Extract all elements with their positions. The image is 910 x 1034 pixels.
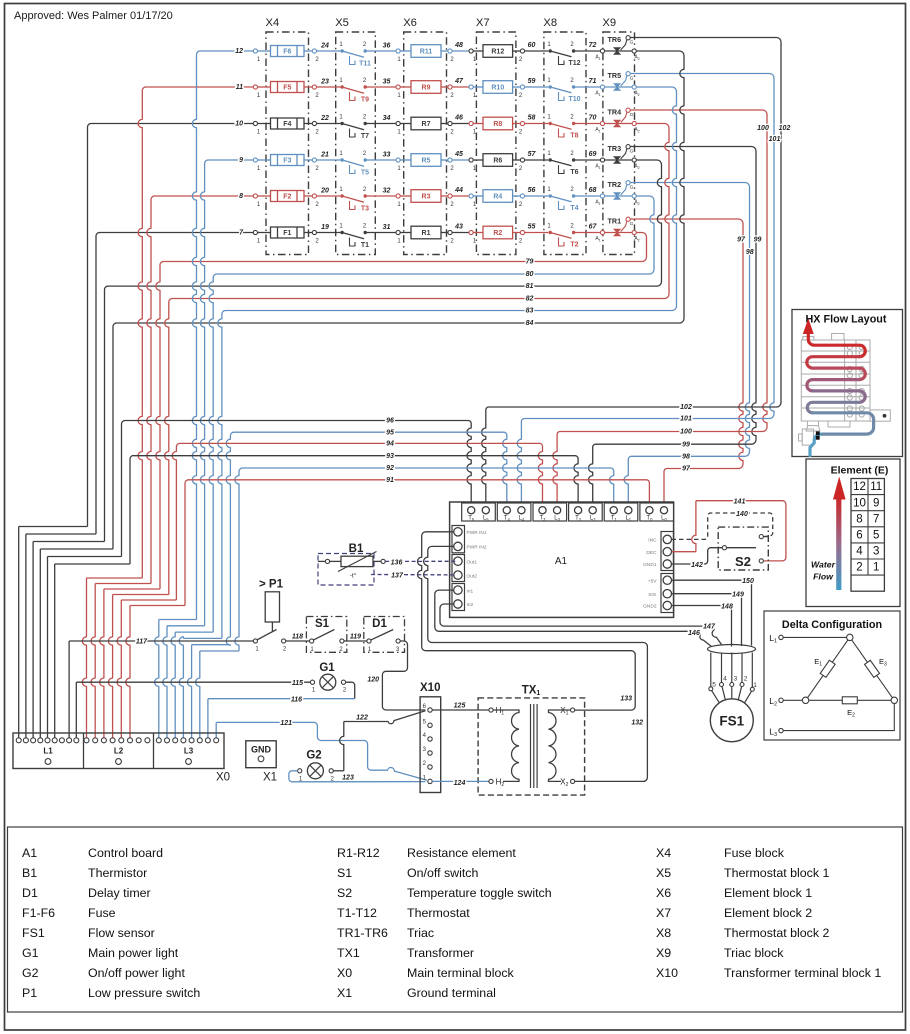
blue bundle vertical 3 bbox=[209, 274, 217, 632]
node R7 pin2 bbox=[448, 121, 452, 125]
svg-text:56: 56 bbox=[528, 187, 536, 194]
svg-text:119: 119 bbox=[350, 634, 361, 641]
HX pump squares bbox=[816, 431, 820, 435]
svg-text:80: 80 bbox=[526, 271, 534, 278]
svg-text:10: 10 bbox=[235, 121, 243, 128]
A1 left terminal block PWR bbox=[452, 526, 465, 553]
svg-text:10: 10 bbox=[853, 497, 866, 509]
red staircase step 6 bbox=[130, 605, 185, 607]
svg-text:Thermostat block 1: Thermostat block 1 bbox=[724, 866, 829, 880]
svg-text:R7: R7 bbox=[422, 121, 431, 128]
svg-text:117: 117 bbox=[136, 638, 148, 645]
thermostat T7 bbox=[340, 122, 343, 125]
red staircase step 2 bbox=[95, 583, 151, 585]
svg-text:68: 68 bbox=[589, 187, 597, 194]
svg-text:Thermostat: Thermostat bbox=[407, 906, 470, 920]
block X6 dash-dot box bbox=[404, 32, 447, 255]
node R3 pin2 bbox=[448, 194, 452, 198]
svg-text:24: 24 bbox=[320, 43, 329, 50]
svg-text:115: 115 bbox=[292, 680, 303, 687]
node F5 pin1 bbox=[253, 85, 257, 89]
red staircase step 5 bbox=[121, 599, 176, 601]
svg-text:31: 31 bbox=[383, 224, 391, 231]
svg-text:X8: X8 bbox=[543, 17, 557, 29]
X0 section L2 bbox=[84, 738, 89, 743]
svg-text:L3: L3 bbox=[184, 747, 194, 756]
svg-text:R10: R10 bbox=[491, 85, 504, 92]
thermostat T6 bbox=[549, 158, 552, 161]
wire 20 to thermostat T3 bbox=[317, 195, 341, 197]
TX1 core bbox=[530, 704, 532, 788]
svg-text:L2: L2 bbox=[590, 515, 596, 522]
main terminal block X0 bbox=[13, 733, 224, 769]
element R6 bbox=[473, 159, 483, 161]
svg-text:Transformer terminal block 1: Transformer terminal block 1 bbox=[724, 966, 881, 980]
svg-text:120: 120 bbox=[367, 677, 379, 684]
on/off switch S1 bbox=[306, 617, 346, 653]
wire 124 X10 pin1 to TX1 H2 bbox=[432, 780, 489, 782]
wire 91 to A1 terminal T0 bbox=[188, 480, 649, 507]
node R11 pin1 bbox=[396, 49, 400, 53]
svg-text:TR4: TR4 bbox=[608, 107, 622, 116]
svg-text:X5: X5 bbox=[656, 866, 671, 880]
wire 101 horizontal to A1 terminal L4 bbox=[517, 419, 769, 507]
red staircase step 1 bbox=[87, 577, 143, 579]
A1 left terminal block In bbox=[452, 584, 465, 611]
HX heat exchanger body bbox=[801, 340, 870, 421]
wire 84 from TR6 A2 bbox=[116, 51, 684, 323]
svg-text:On/off power light: On/off power light bbox=[88, 966, 185, 980]
svg-text:G: G bbox=[630, 149, 634, 155]
TX1 X2 terminal bbox=[571, 779, 575, 783]
svg-text:46: 46 bbox=[454, 115, 463, 122]
wire 72 to triac TR6 bbox=[574, 50, 601, 52]
element numbering table bbox=[851, 479, 884, 592]
svg-text:11: 11 bbox=[870, 481, 882, 493]
HX outflow arrow bbox=[803, 319, 814, 335]
A1 right terminal block +5V/SIG/GND2 bbox=[661, 574, 674, 613]
svg-text:Flow sensor: Flow sensor bbox=[88, 926, 155, 940]
wire 117 from X0 L1 to P1 bbox=[68, 641, 70, 738]
red bundle lower vertical 3 bbox=[100, 589, 104, 738]
fuse F1 bbox=[258, 232, 271, 234]
svg-text:23: 23 bbox=[320, 79, 329, 86]
fuse F5 bbox=[258, 86, 271, 88]
svg-text:2: 2 bbox=[856, 562, 862, 574]
svg-text:-t°: -t° bbox=[350, 572, 357, 580]
thermostat T12 bbox=[549, 49, 552, 52]
svg-text:B1: B1 bbox=[349, 543, 364, 555]
red bundle vertical 3 bbox=[156, 262, 164, 590]
A1 terminal pair T1/L1 bbox=[604, 503, 638, 521]
blue bundle lower vertical 6 bbox=[196, 651, 200, 738]
blue bundle lower vertical 2 bbox=[163, 626, 167, 738]
X10 pin 2 bbox=[428, 765, 432, 769]
TX1 secondary winding bbox=[549, 710, 571, 781]
svg-text:D1: D1 bbox=[22, 886, 38, 900]
node F3 pin2 bbox=[312, 158, 316, 162]
svg-text:Element block 1: Element block 1 bbox=[724, 886, 812, 900]
wire 10 from bundle to fuse F4 bbox=[91, 123, 256, 125]
wire 140 INC to S2 dashed bbox=[672, 513, 773, 539]
red bundle vertical 6 bbox=[185, 480, 189, 606]
svg-text:100: 100 bbox=[680, 429, 692, 436]
svg-text:93: 93 bbox=[386, 453, 394, 460]
svg-text:43: 43 bbox=[454, 224, 463, 231]
thermostat T9 bbox=[340, 85, 343, 88]
node F6 pin1 bbox=[253, 49, 257, 53]
node R7 pin1 bbox=[396, 121, 400, 125]
TR5 gate node bbox=[626, 72, 630, 76]
svg-text:L0: L0 bbox=[661, 515, 667, 522]
wire 46 to element R8 bbox=[452, 123, 469, 125]
svg-text:T5: T5 bbox=[468, 515, 475, 522]
thermostat T4 bbox=[549, 194, 552, 197]
Delta Configuration box bbox=[764, 611, 900, 740]
delta winding E2 bbox=[809, 699, 892, 701]
node F4 pin1 bbox=[253, 121, 257, 125]
wire 142 GND1 to S2 common bbox=[672, 548, 723, 564]
X10 pin 5 bbox=[428, 723, 432, 727]
svg-text:R8: R8 bbox=[493, 121, 502, 128]
blue staircase step 1 bbox=[159, 619, 197, 621]
wire 146 In1 to FS1 pin 5 bbox=[435, 590, 712, 646]
red bundle lower vertical 5 bbox=[117, 600, 121, 738]
black bundle vertical 5 bbox=[122, 421, 126, 557]
svg-text:83: 83 bbox=[526, 308, 534, 315]
triac TR1 bbox=[600, 230, 604, 234]
block X8 dash-dot box bbox=[544, 32, 586, 255]
svg-text:X8: X8 bbox=[656, 926, 671, 940]
wire 80 from TR2 A2 bbox=[216, 196, 654, 274]
svg-text:45: 45 bbox=[454, 151, 463, 158]
wire 79 from TR1 A2 bbox=[163, 233, 646, 262]
wire 97 horizontal to A1 terminal L0 bbox=[664, 469, 739, 507]
wire 98 horizontal to A1 terminal L1 bbox=[624, 456, 745, 506]
svg-text:On/off switch: On/off switch bbox=[407, 866, 479, 880]
blue staircase step 3 bbox=[175, 631, 213, 633]
svg-text:T2: T2 bbox=[575, 515, 582, 522]
node R3 pin1 bbox=[396, 194, 400, 198]
red bundle vertical 4 bbox=[165, 299, 173, 595]
red bundle lower vertical 1 bbox=[82, 578, 86, 738]
svg-text:G1: G1 bbox=[22, 946, 39, 960]
svg-text:X10: X10 bbox=[656, 966, 678, 980]
water flow arrow bbox=[836, 496, 841, 590]
svg-text:F2: F2 bbox=[283, 194, 291, 201]
svg-text:L2: L2 bbox=[114, 747, 124, 756]
A1 right terminal block INC/DEC/GND1 bbox=[661, 532, 674, 571]
node F2 pin2 bbox=[312, 194, 316, 198]
wire 116 G1 return to X0 L3 bbox=[346, 682, 355, 699]
svg-text:1: 1 bbox=[873, 562, 879, 574]
svg-text:X6: X6 bbox=[403, 17, 417, 29]
HX element circles bbox=[847, 344, 852, 349]
wire 32 to element R3 bbox=[365, 195, 396, 197]
wire 150 +5V to FS1 pin 1 bbox=[672, 580, 752, 645]
svg-text:TR1: TR1 bbox=[608, 216, 622, 225]
Element (E) box bbox=[806, 459, 900, 607]
A1 terminal pair T0/L0 bbox=[640, 503, 674, 521]
wire 120 D1 to X10 pin 6 bbox=[382, 641, 425, 710]
svg-text:81: 81 bbox=[526, 283, 534, 290]
svg-text:T11: T11 bbox=[359, 61, 371, 68]
wire 36 to element R11 bbox=[365, 50, 396, 52]
svg-text:147: 147 bbox=[703, 624, 716, 631]
svg-text:X9: X9 bbox=[656, 946, 671, 960]
wire 115 from X0 L1 to G1 bbox=[75, 682, 77, 738]
svg-text:T3: T3 bbox=[539, 515, 546, 522]
svg-text:148: 148 bbox=[721, 603, 733, 610]
svg-text:TR6: TR6 bbox=[608, 35, 622, 44]
fuse F2 bbox=[258, 195, 271, 197]
A1 terminal pair T5/L5 bbox=[462, 503, 496, 521]
svg-text:67: 67 bbox=[589, 224, 598, 231]
svg-text:133: 133 bbox=[620, 696, 632, 703]
wire 7 from bundle to fuse F1 bbox=[99, 232, 255, 234]
triac TR5 bbox=[600, 85, 604, 89]
svg-text:D1: D1 bbox=[372, 618, 387, 630]
svg-text:Thermistor: Thermistor bbox=[88, 866, 147, 880]
node F3 pin1 bbox=[253, 158, 257, 162]
svg-text:T2: T2 bbox=[570, 242, 578, 249]
svg-text:99: 99 bbox=[682, 441, 690, 448]
svg-text:T12: T12 bbox=[568, 60, 580, 67]
element R3 bbox=[400, 195, 411, 197]
transformer terminal block X10 bbox=[420, 697, 441, 793]
svg-text:R11: R11 bbox=[420, 49, 433, 56]
svg-text:P1: P1 bbox=[22, 986, 37, 1000]
svg-text:X10: X10 bbox=[420, 682, 440, 694]
wire 23 to thermostat T9 bbox=[317, 86, 341, 88]
svg-text:12: 12 bbox=[853, 481, 866, 493]
svg-text:Transformer: Transformer bbox=[407, 946, 474, 960]
wire 123 G2 to X10 pin 1 bbox=[289, 771, 426, 782]
element R2 bbox=[473, 232, 483, 234]
svg-text:X0: X0 bbox=[216, 772, 230, 784]
node R6 pin1 bbox=[469, 158, 473, 162]
blue staircase step 2 bbox=[167, 625, 205, 627]
svg-text:In2: In2 bbox=[467, 602, 474, 608]
svg-text:F4: F4 bbox=[283, 121, 291, 128]
FS1 pin 1 bbox=[751, 653, 753, 688]
delta left node bbox=[802, 697, 808, 703]
svg-text:X0: X0 bbox=[337, 966, 352, 980]
svg-text:96: 96 bbox=[386, 418, 394, 425]
wire 59 to thermostat T10 bbox=[525, 86, 549, 88]
svg-text:82: 82 bbox=[526, 296, 534, 303]
thermostat T10 bbox=[549, 85, 552, 88]
black bundle lower vertical 6 bbox=[54, 564, 56, 738]
node TR3 A2 bbox=[632, 158, 636, 162]
blue bundle vertical 1 bbox=[192, 51, 200, 620]
X10 pin 4 bbox=[428, 737, 432, 741]
svg-text:8: 8 bbox=[856, 513, 862, 525]
thermostat T3 bbox=[340, 194, 343, 197]
svg-text:G2: G2 bbox=[22, 966, 39, 980]
svg-text:TR1-TR6: TR1-TR6 bbox=[337, 926, 388, 940]
svg-text:140: 140 bbox=[736, 511, 748, 518]
blue bundle lower vertical 5 bbox=[187, 645, 191, 738]
thermostat T2 bbox=[549, 231, 552, 234]
blue bundle lower vertical 4 bbox=[179, 637, 183, 738]
svg-text:L1: L1 bbox=[625, 515, 631, 522]
svg-text:R1-R12: R1-R12 bbox=[337, 846, 380, 860]
wire 92 to A1 terminal T1 bbox=[242, 468, 614, 507]
svg-text:8: 8 bbox=[239, 193, 243, 200]
blue bundle lower vertical 1 bbox=[155, 620, 159, 739]
wire 95 to A1 terminal T4 bbox=[234, 432, 507, 506]
svg-text:Fuse block: Fuse block bbox=[724, 846, 785, 860]
red staircase step 3 bbox=[104, 588, 160, 590]
svg-text:R2: R2 bbox=[493, 230, 502, 237]
blue bundle vertical 2 bbox=[200, 160, 208, 626]
element R12 bbox=[473, 50, 483, 52]
svg-text:X7: X7 bbox=[476, 17, 490, 29]
svg-text:+5V: +5V bbox=[648, 578, 657, 584]
svg-text:R12: R12 bbox=[491, 49, 504, 56]
TX1 H2 terminal bbox=[489, 779, 493, 783]
A1 terminal pair T2/L2 bbox=[569, 503, 603, 521]
svg-text:X6: X6 bbox=[656, 886, 671, 900]
svg-text:T4: T4 bbox=[570, 205, 578, 212]
svg-text:20: 20 bbox=[320, 188, 329, 195]
TX1 X1 terminal bbox=[571, 708, 575, 712]
svg-text:141: 141 bbox=[734, 498, 746, 505]
wire 9 from bundle to fuse F3 bbox=[208, 159, 256, 161]
wire 141 DEC to S2 bbox=[672, 551, 696, 553]
TR6 gate node bbox=[626, 36, 630, 40]
svg-text:F3: F3 bbox=[283, 158, 291, 165]
svg-text:Triac block: Triac block bbox=[724, 946, 784, 960]
svg-text:55: 55 bbox=[528, 224, 536, 231]
node R2 pin1 bbox=[469, 230, 473, 234]
node R10 pin2 bbox=[520, 85, 524, 89]
legend box bbox=[8, 827, 903, 1012]
svg-text:X9: X9 bbox=[602, 17, 616, 29]
FS1 pin 5 bbox=[710, 653, 712, 687]
A1 left terminal block Out bbox=[452, 555, 465, 582]
wire 69 to triac TR3 bbox=[574, 159, 601, 161]
svg-text:72: 72 bbox=[589, 42, 597, 49]
svg-text:100: 100 bbox=[757, 125, 769, 132]
wire 81 from TR3 A2 bbox=[108, 160, 662, 286]
svg-text:G: G bbox=[630, 221, 634, 227]
svg-text:G: G bbox=[630, 76, 634, 82]
wire 100 gate of TR4 run to A1 bbox=[630, 110, 767, 432]
wire 55 to thermostat T2 bbox=[525, 232, 549, 234]
wire 94 to A1 terminal T3 bbox=[180, 443, 543, 506]
triac TR3 bbox=[600, 158, 604, 162]
node R5 pin1 bbox=[396, 158, 400, 162]
wire 149 SIG to FS1 pin 2 bbox=[672, 594, 742, 646]
svg-text:PWR IN1: PWR IN1 bbox=[467, 530, 487, 536]
node R1 pin1 bbox=[396, 230, 400, 234]
svg-text:Control board: Control board bbox=[88, 846, 163, 860]
svg-text:32: 32 bbox=[383, 188, 391, 195]
element R1 bbox=[400, 232, 411, 234]
wire 34 to element R7 bbox=[365, 123, 396, 125]
X10 pin 6 bbox=[428, 708, 432, 712]
svg-text:102: 102 bbox=[779, 125, 791, 132]
svg-text:91: 91 bbox=[386, 477, 394, 484]
svg-text:> P1: > P1 bbox=[259, 579, 284, 591]
blue staircase step 5 bbox=[192, 644, 231, 646]
svg-text:L5: L5 bbox=[483, 515, 489, 522]
svg-text:94: 94 bbox=[386, 441, 394, 448]
svg-text:9: 9 bbox=[873, 497, 879, 509]
svg-text:11: 11 bbox=[236, 84, 243, 91]
node R8 pin1 bbox=[469, 121, 473, 125]
thermostat T8 bbox=[549, 122, 552, 125]
wire 132 PWR IN2 to TX1 X2 bbox=[424, 546, 648, 781]
black bundle vertical 1 bbox=[88, 124, 92, 527]
svg-text:1: 1 bbox=[753, 682, 757, 689]
svg-text:Out2: Out2 bbox=[467, 573, 478, 579]
fuse F3 bbox=[258, 159, 271, 161]
thermistor B1 bbox=[318, 554, 374, 586]
black staircase step 1 bbox=[19, 526, 88, 528]
svg-text:Main terminal block: Main terminal block bbox=[407, 966, 515, 980]
svg-text:Element (E): Element (E) bbox=[831, 465, 889, 477]
svg-text:X1: X1 bbox=[263, 772, 277, 784]
wire 101 gate of TR5 run to A1 bbox=[630, 74, 774, 419]
wire 22 to thermostat T7 bbox=[317, 123, 341, 125]
wire 99 horizontal to A1 terminal L2 bbox=[589, 444, 752, 506]
black bundle vertical 2 bbox=[96, 233, 100, 535]
wire 8 from bundle to fuse F2 bbox=[154, 195, 255, 197]
svg-text:X1: X1 bbox=[337, 986, 352, 1000]
wire 48 to element R12 bbox=[452, 50, 469, 52]
wire 102 horizontal to A1 terminal L5 bbox=[482, 407, 777, 507]
blue bundle vertical 5 bbox=[226, 432, 234, 645]
svg-text:F6: F6 bbox=[283, 49, 291, 56]
black bundle lower vertical 5 bbox=[47, 557, 49, 739]
black bundle vertical 6 bbox=[130, 456, 134, 565]
block X9 dash-dot box bbox=[603, 32, 635, 255]
svg-text:34: 34 bbox=[383, 115, 391, 122]
black staircase step 6 bbox=[55, 563, 130, 565]
black bundle lower vertical 2 bbox=[25, 534, 27, 738]
blue bundle vertical 4 bbox=[218, 311, 226, 639]
wire 136 B1 to Out1 dashed bbox=[385, 560, 456, 562]
svg-text:6: 6 bbox=[856, 530, 862, 542]
svg-text:X5: X5 bbox=[335, 17, 349, 29]
wire 70 to triac TR4 bbox=[574, 123, 601, 125]
wire 99 gate of TR3 run to A1 bbox=[630, 147, 756, 445]
delay timer D1 bbox=[364, 617, 405, 653]
svg-text:132: 132 bbox=[631, 720, 643, 727]
svg-text:137: 137 bbox=[391, 573, 404, 580]
svg-text:124: 124 bbox=[454, 780, 466, 787]
red bundle lower vertical 6 bbox=[126, 606, 130, 739]
TR3 gate node bbox=[626, 145, 630, 149]
svg-text:X4: X4 bbox=[656, 846, 671, 860]
svg-text:T9: T9 bbox=[361, 97, 369, 104]
wire 133 PWR IN1 to TX1 X1 bbox=[418, 532, 636, 710]
svg-text:79: 79 bbox=[526, 259, 534, 266]
HX serpentine flow tube bbox=[808, 333, 865, 357]
svg-text:T1-T12: T1-T12 bbox=[337, 906, 377, 920]
node F2 pin1 bbox=[253, 194, 257, 198]
wire 56 to thermostat T4 bbox=[525, 195, 549, 197]
node F1 pin1 bbox=[253, 230, 257, 234]
svg-text:2: 2 bbox=[744, 676, 748, 683]
black bundle lower vertical 4 bbox=[39, 549, 41, 738]
node F1 pin2 bbox=[312, 230, 316, 234]
wire 43 to element R2 bbox=[452, 232, 469, 234]
svg-text:118: 118 bbox=[292, 634, 303, 641]
